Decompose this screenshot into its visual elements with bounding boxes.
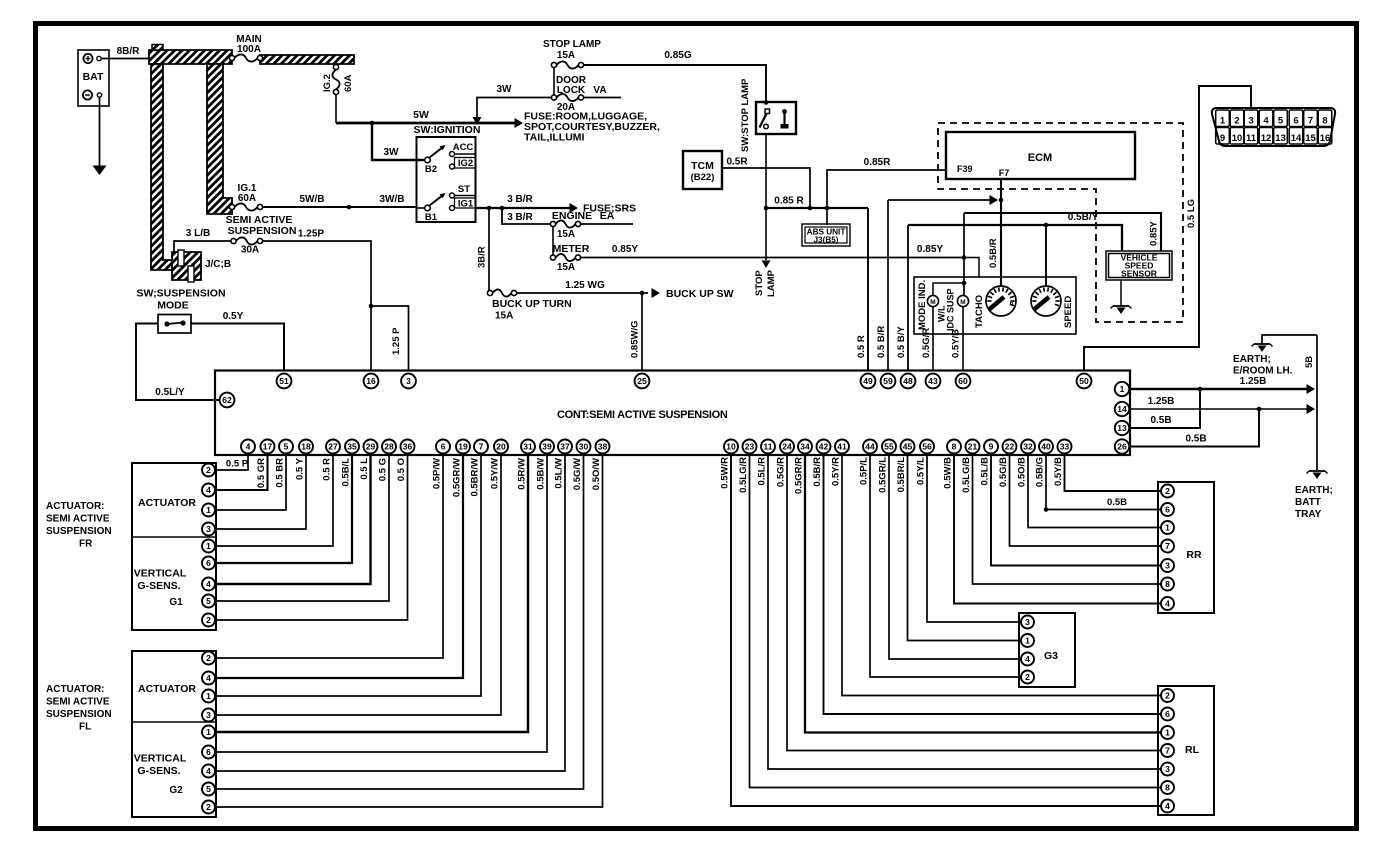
svg-text:0.5P/W: 0.5P/W (432, 458, 443, 489)
pin 56 controller bottom (920, 440, 934, 454)
svg-text:20: 20 (496, 442, 506, 452)
pin 45 controller bottom (901, 440, 915, 454)
pin 1 RR (1161, 521, 1174, 534)
svg-text:0.5Y/B: 0.5Y/B (1053, 457, 1064, 486)
fuse DOOR LOCK 20A (551, 75, 586, 113)
svg-text:0.5 O: 0.5 O (396, 458, 407, 481)
junction 0.5B on RR pin 6 wire (1044, 497, 1127, 512)
svg-text:29: 29 (366, 442, 376, 452)
svg-text:0.5R: 0.5R (726, 157, 748, 168)
svg-text:3 B/R: 3 B/R (507, 194, 533, 205)
svg-text:IDC SUSP: IDC SUSP (946, 288, 956, 331)
module ECM (946, 132, 1135, 179)
svg-text:G3: G3 (1044, 650, 1058, 662)
svg-text:0.85Y: 0.85Y (917, 244, 943, 255)
pin 3 actuator FL (202, 709, 215, 722)
pin 51 controller top (277, 374, 292, 389)
svg-text:60: 60 (958, 376, 968, 386)
svg-text:15A: 15A (495, 311, 513, 322)
module TCM (B22) (683, 151, 722, 189)
module ABS UNIT J3(B5) (802, 224, 850, 246)
svg-text:F39: F39 (957, 164, 973, 174)
hatched bus bar horizontal left (to MAIN fuse) (149, 45, 232, 65)
svg-text:J3(B5): J3(B5) (813, 236, 838, 245)
svg-text:11: 11 (1246, 133, 1257, 144)
wire 0.5L/B from controller pin (980, 454, 1162, 566)
svg-text:0.5 P: 0.5 P (226, 459, 249, 470)
svg-text:0.5BR/W: 0.5BR/W (470, 458, 481, 497)
svg-text:2: 2 (206, 465, 211, 475)
svg-text:31: 31 (523, 442, 533, 452)
svg-text:3: 3 (1248, 116, 1253, 127)
svg-text:0.5L/Y: 0.5L/Y (155, 387, 185, 398)
svg-text:0.85Y: 0.85Y (1149, 221, 1160, 246)
svg-text:7: 7 (1308, 116, 1313, 127)
svg-text:0.5W/B: 0.5W/B (943, 457, 954, 489)
wire 0.5W/R from controller pin (720, 454, 1162, 807)
wire 8B/R battery to main bus (102, 46, 150, 59)
wire 0.85 R horizontal node (764, 196, 868, 211)
svg-text:10: 10 (1232, 133, 1243, 144)
svg-text:22: 22 (1005, 442, 1015, 452)
svg-text:5: 5 (206, 596, 211, 606)
wire 0.5 Y to FR box (215, 454, 306, 530)
indicator lamp W/L IDC SUSP (937, 288, 969, 331)
svg-text:G-SENS.: G-SENS. (137, 580, 180, 592)
pin 36 controller bottom (401, 440, 415, 454)
svg-text:6: 6 (1293, 116, 1298, 127)
wire 3W to DOOR LOCK fuse (477, 84, 554, 121)
svg-text:0.5B/W: 0.5B/W (536, 458, 547, 490)
pin 4 controller bottom (241, 440, 255, 454)
pin 3 G3 (1021, 616, 1034, 629)
svg-text:0.5G/W: 0.5G/W (572, 458, 583, 490)
svg-text:48: 48 (903, 376, 913, 386)
svg-text:0.85W/G: 0.85W/G (630, 321, 641, 359)
svg-text:14: 14 (1117, 404, 1127, 414)
svg-text:1: 1 (1220, 116, 1226, 127)
terminal ACC (450, 142, 477, 157)
svg-text:VERTICAL: VERTICAL (134, 568, 187, 580)
pin 7 RL (1161, 744, 1174, 757)
pin 33 controller bottom (1058, 440, 1072, 454)
svg-text:7: 7 (1165, 746, 1170, 756)
wire 0.5 O to FR box (215, 454, 408, 621)
svg-text:1: 1 (1165, 523, 1170, 533)
svg-text:0.85G: 0.85G (664, 50, 691, 61)
meter cluster box (914, 277, 1076, 334)
wire 0.5B/Y link (908, 212, 1122, 251)
box ACTUATOR SEMI ACTIVE SUSPENSION FR (132, 463, 216, 630)
svg-text:METER: METER (553, 243, 590, 255)
svg-text:M: M (930, 299, 935, 306)
wire 5W main feed (336, 109, 523, 128)
svg-text:MODE IND.: MODE IND. (917, 280, 928, 330)
svg-text:2: 2 (1025, 672, 1030, 682)
wire EA from ENGINE fuse (581, 223, 634, 225)
pin 21 controller bottom (966, 440, 980, 454)
svg-text:3W: 3W (384, 147, 400, 158)
wire 5W/B - 3W/B to ignition B1 (263, 194, 417, 209)
wire 1.25B pin 14 to earth batt tray (1130, 396, 1315, 414)
svg-text:14: 14 (1291, 133, 1302, 144)
pin 41 controller bottom (835, 440, 849, 454)
svg-text:3: 3 (1025, 617, 1030, 627)
pin 2 RL (1161, 689, 1174, 702)
wire 0.5B/G from controller pin (1035, 454, 1162, 510)
svg-text:0.5G/B: 0.5G/B (998, 457, 1009, 487)
svg-text:42: 42 (819, 442, 829, 452)
svg-text:1: 1 (1025, 636, 1030, 646)
svg-text:(B22): (B22) (691, 172, 715, 183)
box ACTUATOR SEMI ACTIVE SUSPENSION FL (132, 651, 216, 817)
ignition contact B2 (425, 145, 446, 175)
svg-text:60A: 60A (238, 193, 256, 204)
svg-text:0.5BR/L: 0.5BR/L (896, 457, 907, 493)
pin 1 actuator FR (202, 504, 215, 517)
svg-text:0.5GR/W: 0.5GR/W (452, 458, 463, 497)
svg-text:33: 33 (1060, 442, 1070, 452)
wire 0.5 G to FR box (215, 454, 389, 602)
pin 2 actuator FR (202, 464, 215, 477)
svg-text:0.5P/L: 0.5P/L (859, 457, 870, 485)
svg-text:G2: G2 (169, 785, 183, 796)
svg-text:1.25 WG: 1.25 WG (565, 280, 605, 291)
svg-text:43: 43 (928, 376, 938, 386)
wire 0.5 P pin4 to FR actuator 2 (215, 454, 249, 471)
svg-text:5W/B: 5W/B (300, 194, 325, 205)
svg-text:15A: 15A (557, 50, 575, 61)
pin 55 controller bottom (882, 440, 896, 454)
svg-text:0.5G/R: 0.5G/R (776, 457, 787, 487)
svg-text:15A: 15A (557, 229, 575, 240)
wire ENGINE to METER fuse (552, 226, 554, 255)
svg-text:IG.2: IG.2 (322, 74, 333, 92)
svg-text:RL: RL (1185, 744, 1200, 756)
pin 44 controller bottom (863, 440, 877, 454)
wire 0.85Y meter fuse to cluster (581, 244, 967, 260)
svg-text:8: 8 (952, 442, 957, 452)
wire 0.5BR/W to FL box (215, 454, 481, 697)
svg-text:0.5 GR: 0.5 GR (256, 458, 267, 488)
svg-text:60A: 60A (343, 74, 354, 92)
svg-text:EA: EA (600, 210, 615, 222)
svg-text:9: 9 (1220, 133, 1225, 144)
pin 19 controller bottom (456, 440, 470, 454)
svg-text:4: 4 (1025, 654, 1030, 664)
controller CONT:SEMI ACTIVE SUSPENSION (215, 371, 1130, 456)
pin 1 controller right (1115, 382, 1129, 396)
svg-text:0.5W/R: 0.5W/R (720, 457, 731, 489)
switch SW:STOP LAMP box (740, 78, 796, 152)
wire 0.5GR/L from controller pin (878, 454, 1022, 660)
svg-text:37: 37 (560, 442, 570, 452)
svg-text:3: 3 (206, 710, 211, 720)
svg-text:1: 1 (206, 505, 211, 515)
pin 13 controller right (1115, 421, 1129, 435)
svg-text:23: 23 (745, 442, 755, 452)
svg-text:5W: 5W (413, 109, 429, 121)
svg-text:0.5B/Y: 0.5B/Y (1068, 212, 1099, 223)
text FUSE:ROOM list (524, 111, 660, 144)
wire 0.5BR/L from controller pin (896, 454, 1021, 641)
svg-text:1: 1 (1120, 384, 1125, 394)
wire 0.5Y/B from controller pin (1053, 454, 1161, 492)
svg-text:0.5L/W: 0.5L/W (554, 458, 565, 489)
svg-text:38: 38 (598, 442, 608, 452)
pin 7 controller bottom (474, 440, 488, 454)
svg-text:16: 16 (1320, 133, 1331, 144)
pin 4 actuator FR (202, 578, 215, 591)
gauge SPEED (1031, 286, 1074, 328)
svg-text:8: 8 (1165, 783, 1170, 793)
svg-text:35: 35 (347, 442, 357, 452)
svg-text:TAIL,ILLUMI: TAIL,ILLUMI (524, 132, 585, 144)
svg-text:5: 5 (284, 442, 289, 452)
svg-text:7: 7 (1165, 541, 1170, 551)
svg-text:6: 6 (206, 558, 211, 568)
fuse SEMI ACTIVE SUSPENSION 30A (226, 214, 325, 256)
pin 30 controller bottom (577, 440, 591, 454)
wire 3B/R branch to BUCK UP TURN fuse (477, 208, 490, 293)
svg-text:1.25B: 1.25B (1240, 376, 1267, 387)
svg-text:0.5B: 0.5B (1185, 434, 1206, 445)
svg-text:16: 16 (366, 376, 376, 386)
pin 26 controller right (1115, 439, 1129, 453)
svg-text:25: 25 (637, 376, 647, 386)
fuse ENGINE 15A (550, 210, 614, 240)
pin 1 actuator FR (202, 540, 215, 553)
wire stop lamp switch down to STOP LAMP arrow (765, 134, 767, 260)
pin 37 controller bottom (558, 440, 572, 454)
terminal ST (450, 184, 477, 198)
wire 1.25 WG to BUCK UP SW (517, 280, 734, 300)
terminal IG2 (450, 158, 476, 170)
svg-text:8B/R: 8B/R (117, 46, 141, 57)
svg-text:32: 32 (1023, 442, 1033, 452)
svg-text:0.5 R: 0.5 R (856, 335, 867, 358)
svg-text:6: 6 (206, 747, 211, 757)
pin 4 actuator FR (202, 484, 215, 497)
svg-text:STOP LAMP: STOP LAMP (543, 39, 601, 50)
wire 3 L/B from J/C;B (174, 228, 231, 252)
pin 23 controller bottom (743, 440, 757, 454)
svg-text:0.5G/R: 0.5G/R (921, 328, 932, 358)
wire 0.5 L to FR box (215, 454, 371, 585)
indicator lamp MODE IND. (917, 280, 939, 330)
svg-text:SUSPENSION: SUSPENSION (46, 526, 112, 537)
pin 20 controller bottom (494, 440, 508, 454)
svg-text:39: 39 (542, 442, 552, 452)
box G3 (1019, 613, 1075, 687)
pin 9 controller bottom (984, 440, 998, 454)
svg-text:0.5 R: 0.5 R (322, 458, 333, 481)
svg-text:0.5Y/W: 0.5Y/W (490, 458, 501, 489)
pin 22 controller bottom (1003, 440, 1017, 454)
svg-text:7: 7 (479, 442, 484, 452)
svg-text:0.5GR/R: 0.5GR/R (794, 457, 805, 494)
hatched bus bar vertical 1 (battery feed) (151, 64, 174, 270)
svg-text:2: 2 (1165, 486, 1170, 496)
wire 0.5O/W to FL box (215, 454, 603, 808)
svg-text:E/ROOM LH.: E/ROOM LH. (1233, 366, 1293, 377)
svg-text:4: 4 (206, 579, 211, 589)
svg-text:3B/R: 3B/R (477, 246, 488, 268)
pin 2 actuator FL (202, 801, 215, 814)
svg-text:9: 9 (989, 442, 994, 452)
svg-text:0.85R: 0.85R (864, 157, 891, 168)
wire stub 3W inside switch (417, 159, 426, 161)
battery BAT (78, 50, 109, 106)
svg-text:0.5B/R: 0.5B/R (812, 457, 823, 487)
wire 0.5GR/W to FL box (215, 454, 463, 679)
svg-text:13: 13 (1275, 133, 1286, 144)
wire 0.5GR/R from controller pin (794, 454, 1162, 733)
pin 28 controller bottom (382, 440, 396, 454)
svg-text:0.5B/G: 0.5B/G (1035, 457, 1046, 487)
svg-text:0.5 B/Y: 0.5 B/Y (896, 326, 907, 358)
svg-text:2: 2 (206, 802, 211, 812)
wire 0.5B/R from controller pin (812, 454, 1161, 715)
svg-text:0.5 BR: 0.5 BR (275, 458, 286, 488)
svg-text:3: 3 (406, 376, 411, 386)
svg-text:11: 11 (764, 442, 773, 452)
hatched bus bar horizontal right (MAIN to IG.2) (260, 55, 354, 64)
pin 10 controller bottom (724, 440, 738, 454)
wire 3B/R branch to ENGINE fuse (502, 208, 553, 224)
svg-text:J/C;B: J/C;B (205, 259, 231, 270)
svg-text:TCM: TCM (691, 160, 714, 172)
pin 8 RR (1161, 578, 1174, 591)
wire 0.5 B/Y to pin 48 (896, 225, 908, 371)
svg-text:50: 50 (1079, 376, 1089, 386)
svg-text:0.5B: 0.5B (1107, 497, 1127, 508)
pin 38 controller bottom (596, 440, 610, 454)
wire F7 0.5B/R down to tachometer (988, 179, 1003, 287)
pin 2 actuator FR (202, 614, 215, 627)
svg-text:3: 3 (206, 524, 211, 534)
arrow to STOP LAMP (754, 260, 777, 297)
pin 8 RL (1161, 781, 1174, 794)
pin 5 actuator FR (202, 595, 215, 608)
svg-text:0.5L/R: 0.5L/R (757, 457, 768, 486)
fuse MAIN 100A (229, 34, 262, 62)
svg-text:3 B/R: 3 B/R (507, 212, 533, 223)
wire stub 5W/B inside switch (417, 207, 426, 209)
svg-text:0.5Y/B: 0.5Y/B (951, 329, 962, 358)
svg-text:0.5Y/L: 0.5Y/L (916, 457, 927, 485)
svg-text:VA: VA (593, 85, 606, 96)
svg-text:G-SENS.: G-SENS. (137, 765, 180, 777)
svg-text:BAT: BAT (83, 71, 104, 83)
svg-text:0.5R/W: 0.5R/W (517, 458, 528, 490)
wire 0.5 BR to FR box (215, 454, 286, 511)
pin 1 actuator FL (202, 690, 215, 703)
pin 27 controller bottom (326, 440, 340, 454)
svg-text:28: 28 (384, 442, 394, 452)
svg-text:5: 5 (1278, 116, 1284, 127)
svg-text:LOCK: LOCK (557, 85, 586, 96)
svg-text:1.25 P: 1.25 P (391, 327, 402, 355)
wire 0.5R/W to FL box (215, 454, 528, 733)
wire 0.5LG/B from controller pin (961, 454, 1161, 585)
earth symbol E/ROOM LH (1233, 344, 1293, 377)
wire 0.85G stop lamp fuse to SW:STOP LAMP (583, 50, 766, 102)
gauge TACHO (974, 286, 1016, 328)
wire 0.5R TCM to 0.85R node (722, 157, 810, 209)
pin 60 controller top (956, 374, 971, 389)
svg-text:6: 6 (1165, 709, 1170, 719)
pin 6 RR (1161, 503, 1174, 516)
pin 8 controller bottom (947, 440, 961, 454)
pin 31 controller bottom (521, 440, 535, 454)
pin 29 controller bottom (364, 440, 378, 454)
pin 7 RR (1161, 540, 1174, 553)
svg-text:0.5 LG: 0.5 LG (1186, 199, 1197, 228)
svg-text:30A: 30A (241, 245, 259, 256)
svg-text:0.5 B/R: 0.5 B/R (876, 326, 887, 358)
pin 39 controller bottom (540, 440, 554, 454)
pin 5 actuator FL (202, 783, 215, 796)
wire 0.5O/B from controller pin (1017, 454, 1162, 528)
pin 40 controller bottom (1039, 440, 1053, 454)
svg-text:36: 36 (403, 442, 413, 452)
wire 5B vertical to earth batt tray (1304, 335, 1317, 470)
svg-text:1.25P: 1.25P (298, 229, 324, 240)
svg-text:4: 4 (1263, 116, 1269, 127)
svg-text:3: 3 (1165, 764, 1170, 774)
wire 1.25B pin 1 to earth batt tray (1130, 376, 1315, 394)
svg-text:0.5O/W: 0.5O/W (591, 458, 602, 490)
svg-text:SEMI ACTIVE: SEMI ACTIVE (46, 697, 110, 708)
wire 0.5 GR to FR box (215, 454, 268, 491)
svg-text:3 L/B: 3 L/B (186, 228, 210, 239)
svg-text:0.5 Y: 0.5 Y (295, 457, 306, 480)
svg-text:SUSPENSION: SUSPENSION (228, 225, 297, 237)
pin 42 controller bottom (817, 440, 831, 454)
svg-text:RR: RR (1186, 549, 1202, 561)
box RR (1158, 482, 1214, 613)
svg-text:ENGINE: ENGINE (552, 210, 592, 222)
svg-text:1.25B: 1.25B (1148, 396, 1175, 407)
wire 0.5B pin 13 (1130, 389, 1200, 428)
junction block J/C;B (172, 250, 231, 282)
svg-text:5B: 5B (1304, 356, 1315, 368)
svg-text:ECM: ECM (1028, 152, 1052, 164)
pin 3 RR (1161, 559, 1174, 572)
svg-text:0.5O/B: 0.5O/B (1017, 457, 1028, 487)
wire 0.5W/B from controller pin (943, 454, 1162, 604)
svg-text:LAMP: LAMP (766, 269, 777, 297)
svg-text:B2: B2 (425, 164, 437, 175)
pin 62 controller left (220, 393, 235, 408)
wire 0.5B/L to FR box (215, 454, 352, 564)
svg-text:BATT: BATT (1295, 497, 1321, 508)
svg-text:4: 4 (1165, 801, 1170, 811)
wire 1.25P fuse to pin 16 (263, 241, 403, 371)
svg-text:21: 21 (968, 442, 978, 452)
svg-text:BUCK UP TURN: BUCK UP TURN (492, 298, 572, 310)
stop lamp switch contacts (760, 100, 789, 129)
pin 24 controller bottom (780, 440, 794, 454)
wire 0.85W/G buckup to pin 25 (630, 293, 643, 371)
pin 2 RR (1161, 485, 1174, 498)
svg-text:FL: FL (79, 722, 91, 733)
svg-text:0.85Y: 0.85Y (612, 244, 638, 255)
svg-text:30: 30 (579, 442, 589, 452)
svg-text:15A: 15A (557, 262, 575, 273)
earth symbol BATT TRAY (1295, 471, 1333, 520)
